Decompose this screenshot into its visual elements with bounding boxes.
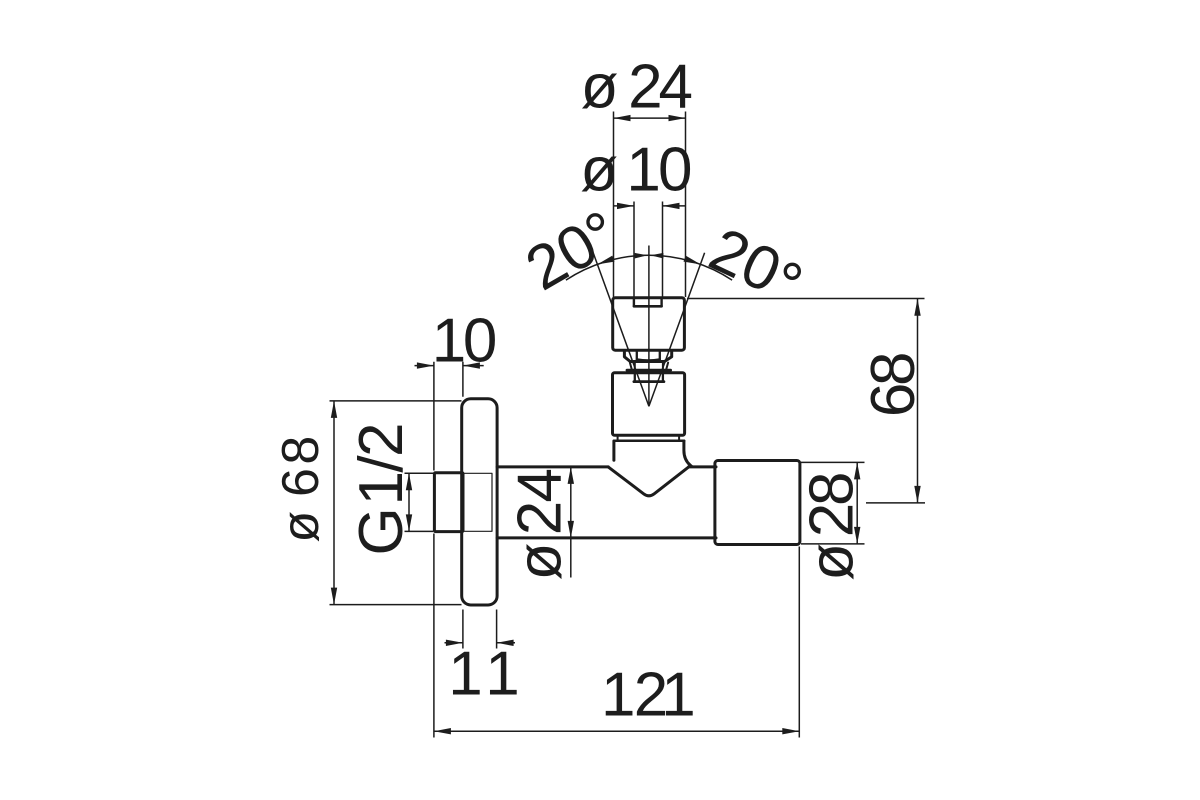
dim G1/2 ext lines: [405, 473, 434, 531]
arrows 28: [854, 462, 860, 479]
arrows angle 20 left: [597, 256, 614, 265]
arrows angle center: [635, 253, 648, 259]
washer band: [627, 369, 671, 372]
angle dimension arc: [566, 255, 732, 280]
bell flare right side: [684, 441, 692, 466]
bell flare left side: [612, 441, 615, 460]
svg-text:68: 68: [859, 351, 928, 417]
svg-text:ø24: ø24: [581, 52, 693, 121]
dim ø68 left ext lines: [330, 401, 462, 605]
dim 68 right line: [917, 299, 919, 503]
degree ring left: [588, 215, 602, 229]
dim ø10 ext lines: [634, 202, 663, 298]
arrows 121: [434, 728, 451, 734]
dim 11 line segments: [445, 642, 516, 644]
dim 10 line segments: [415, 365, 484, 367]
svg-text:G1/2: G1/2: [347, 423, 416, 556]
dim ø24 top line: [614, 117, 686, 119]
dimension linework: [330, 112, 926, 738]
compression nut: [624, 351, 671, 362]
horizontal pipe body: [497, 465, 608, 468]
olive section: [630, 363, 668, 370]
dimension text: [272, 52, 928, 729]
svg-text:ø28: ø28: [798, 471, 867, 580]
outlet block (ø28): [715, 461, 800, 545]
dim 10 ext lines: [434, 362, 463, 471]
dim 11 ext lines: [463, 610, 497, 649]
20 deg slant line right: [649, 253, 705, 406]
dim 28 ext lines: [801, 462, 865, 544]
svg-text:10: 10: [432, 307, 498, 376]
dim ø10 line segments: [614, 205, 686, 207]
dim ø24 top ext lines: [614, 112, 686, 298]
svg-text:ø10: ø10: [580, 136, 692, 205]
lower valve box: [613, 373, 685, 436]
svg-text:ø68: ø68: [272, 436, 330, 543]
arrows ø10: [617, 203, 634, 209]
svg-text:121: 121: [601, 661, 696, 730]
wall flange (escutcheon, side view): [462, 399, 497, 605]
dim 28 line: [856, 462, 858, 544]
dim ø24 pipe line: [570, 467, 572, 578]
arrows ø24 pipe: [568, 467, 574, 484]
ø10 notch in spout top: [634, 298, 662, 306]
degree ring right: [785, 264, 799, 278]
V notch at tee junction: [608, 467, 689, 496]
arrows ø24 top: [614, 115, 631, 121]
stub hidden profile through flange: [465, 473, 493, 531]
dim 68 right ext lines: [687, 299, 925, 503]
arrows G1/2: [406, 473, 412, 490]
centerline: [648, 246, 650, 407]
collar line: [614, 439, 684, 442]
svg-text:ø24: ø24: [506, 468, 575, 581]
collar ticks: [618, 435, 680, 440]
arrows angle 20 right: [684, 256, 701, 265]
arrows 68 right: [914, 299, 920, 316]
dim 121 line: [434, 730, 799, 732]
valve body outlines: [434, 298, 800, 605]
inner step in lower box: [635, 373, 663, 381]
arrows ø68 left: [331, 401, 337, 418]
arrows 10: [417, 362, 434, 368]
arrowheads: [331, 115, 921, 735]
arrows 11: [446, 640, 463, 646]
spout box (top): [613, 298, 685, 351]
dim 121 ext lines: [434, 534, 799, 738]
dim G1/2 line: [408, 473, 410, 531]
dim ø68 left line: [333, 401, 335, 605]
G1/2 threaded stub: [434, 473, 463, 532]
20 deg slant line left: [593, 253, 649, 406]
